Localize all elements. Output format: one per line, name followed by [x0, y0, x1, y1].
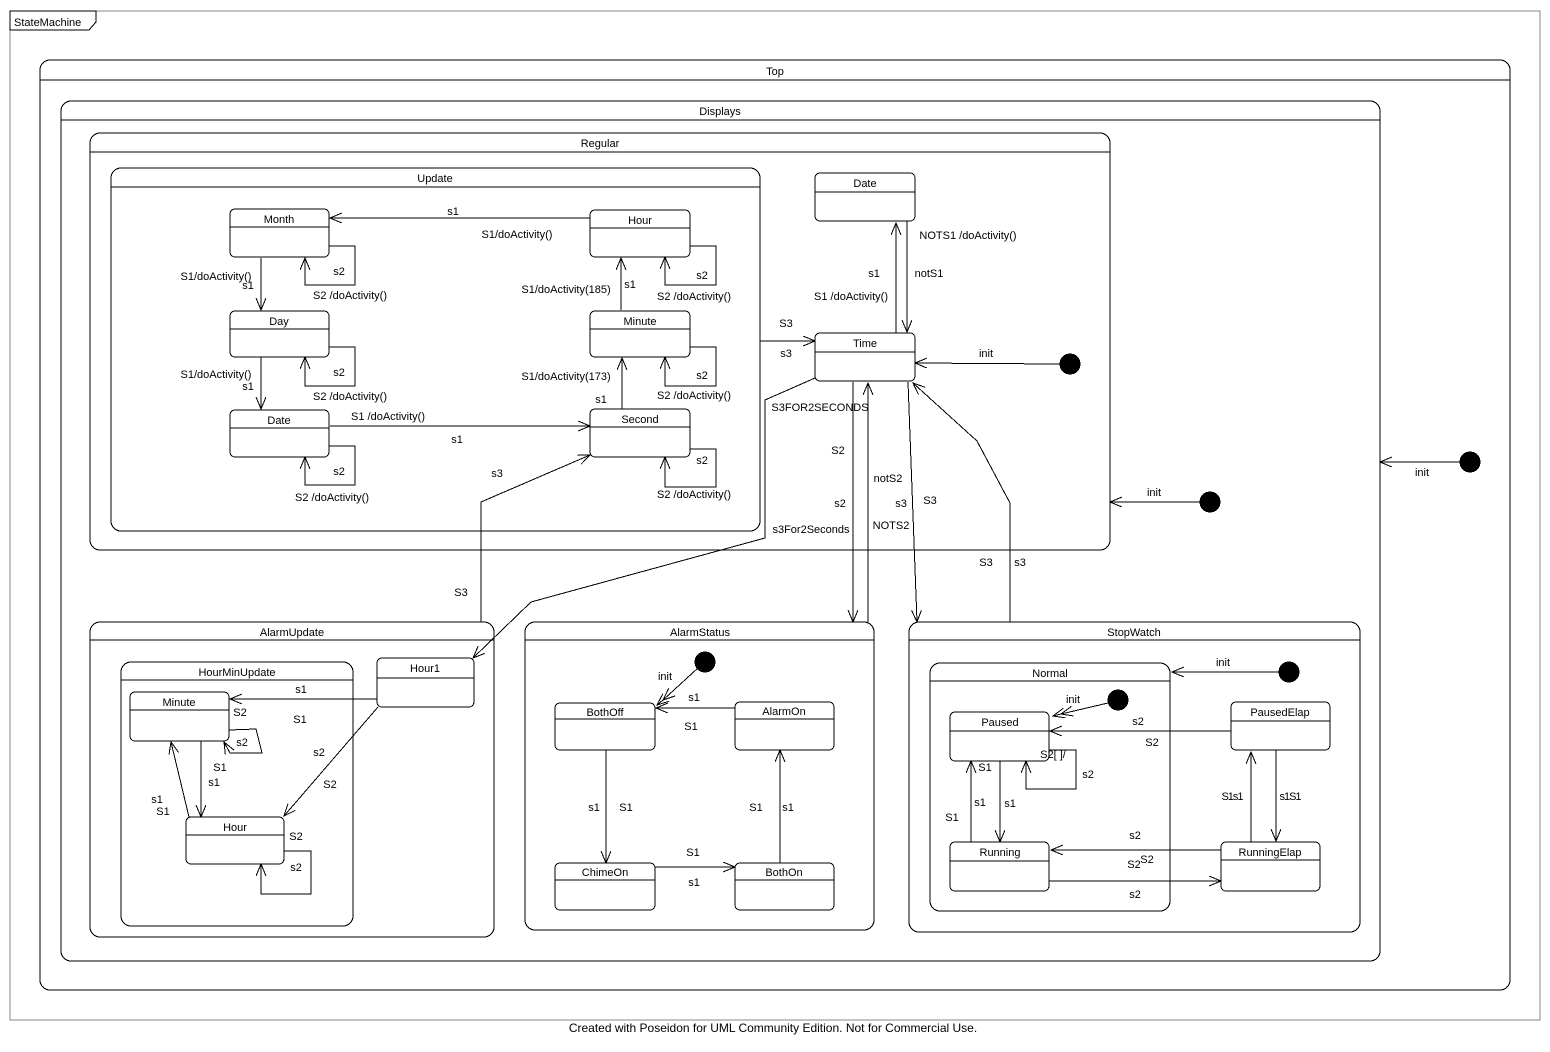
svg-text:S3FOR2SECONDS: S3FOR2SECONDS	[771, 402, 868, 414]
svg-text:s1: s1	[242, 381, 254, 393]
state BothOff	[555, 703, 655, 750]
svg-text:Time: Time	[853, 338, 877, 350]
self loop s2 Date	[295, 446, 369, 504]
transition Hour to Minute (AlarmUpdate)	[151, 742, 189, 818]
svg-text:s3: s3	[895, 498, 907, 510]
svg-text:Minute: Minute	[162, 697, 195, 709]
state Running	[950, 842, 1049, 891]
svg-text:S2 /doActivity(): S2 /doActivity()	[313, 290, 387, 302]
svg-text:s1S1: s1S1	[1279, 791, 1301, 803]
transition Paused to Running s1	[1000, 761, 1016, 842]
svg-text:s2: s2	[1132, 716, 1144, 728]
svg-text:s1: s1	[624, 279, 636, 291]
svg-text:StateMachine: StateMachine	[14, 17, 81, 29]
svg-text:Regular: Regular	[581, 138, 620, 150]
state Minute (AlarmUpdate)	[130, 692, 229, 741]
self loop s2 Second	[657, 449, 731, 501]
transition Running to Paused S1	[945, 761, 991, 842]
svg-text:Top: Top	[766, 66, 784, 78]
svg-text:S2 /doActivity(): S2 /doActivity()	[295, 492, 369, 504]
svg-text:S1 /doActivity(): S1 /doActivity()	[351, 411, 425, 423]
svg-text:Displays: Displays	[699, 106, 741, 118]
svg-text:s2: s2	[696, 270, 708, 282]
transition Hour1 to Minute	[230, 684, 377, 726]
svg-text:StopWatch: StopWatch	[1107, 627, 1160, 639]
svg-text:s1: s1	[688, 692, 700, 704]
svg-text:s1: s1	[688, 877, 700, 889]
svg-text:init: init	[1415, 467, 1429, 479]
svg-text:s2: s2	[333, 266, 345, 278]
svg-text:S1: S1	[749, 802, 762, 814]
transition Second to Minute	[521, 358, 622, 409]
svg-text:S2: S2	[831, 445, 844, 457]
svg-text:Hour: Hour	[628, 215, 652, 227]
svg-text:S2: S2	[323, 779, 336, 791]
init pseudostate to Displays	[1380, 452, 1481, 480]
state Normal	[930, 663, 1170, 911]
svg-text:Minute: Minute	[623, 316, 656, 328]
transition RunningElap to Running s2	[1051, 830, 1221, 871]
state AlarmStatus	[525, 622, 874, 930]
svg-text:s1: s1	[588, 802, 600, 814]
svg-text:S2 /doActivity(): S2 /doActivity()	[657, 489, 731, 501]
svg-text:s1: s1	[595, 394, 607, 406]
svg-text:Normal: Normal	[1032, 668, 1067, 680]
svg-text:S1: S1	[213, 762, 226, 774]
svg-text:Paused: Paused	[981, 717, 1018, 729]
state Paused	[950, 712, 1049, 761]
svg-text:S1/doActivity(): S1/doActivity()	[482, 229, 553, 241]
svg-text:Hour: Hour	[223, 822, 247, 834]
svg-text:Running: Running	[980, 847, 1021, 859]
svg-text:PausedElap: PausedElap	[1250, 707, 1309, 719]
svg-text:Day: Day	[269, 316, 289, 328]
svg-text:S1: S1	[686, 847, 699, 859]
transition Date to Time notS1	[907, 221, 1017, 332]
svg-text:S1: S1	[684, 721, 697, 733]
state Update	[111, 168, 760, 531]
self loop s2 Day	[305, 347, 387, 403]
svg-text:init: init	[1147, 487, 1161, 499]
svg-text:S2 /doActivity(): S2 /doActivity()	[657, 390, 731, 402]
transition RunningElap to PausedElap	[1221, 752, 1251, 842]
transition Time to Date s1	[814, 223, 896, 333]
state Date (top right)	[815, 173, 915, 221]
state BothOn	[735, 863, 834, 910]
state HourMinUpdate	[121, 662, 353, 926]
svg-text:Update: Update	[417, 173, 452, 185]
svg-text:S2 /doActivity(): S2 /doActivity()	[657, 291, 731, 303]
svg-text:s2: s2	[333, 466, 345, 478]
transition Date to Second	[330, 411, 590, 446]
svg-text:s3For2Seconds: s3For2Seconds	[772, 524, 850, 536]
svg-text:S3: S3	[779, 318, 792, 330]
svg-text:Created with Poseidon for UML: Created with Poseidon for UML Community …	[569, 1021, 977, 1035]
svg-text:S2: S2	[1145, 737, 1158, 749]
svg-text:notS1: notS1	[915, 268, 944, 280]
transition Month to Day	[181, 258, 261, 310]
state Day	[230, 311, 329, 357]
svg-text:S2: S2	[233, 707, 246, 719]
transition AlarmUpdate to Second S3	[454, 455, 590, 622]
state RunningElap	[1221, 842, 1320, 891]
svg-text:s1: s1	[868, 268, 880, 280]
svg-text:Second: Second	[621, 414, 658, 426]
svg-text:RunningElap: RunningElap	[1239, 847, 1302, 859]
svg-text:S3: S3	[923, 495, 936, 507]
svg-text:NOTS1 /doActivity(): NOTS1 /doActivity()	[919, 230, 1016, 242]
self loop S2 Paused	[1026, 749, 1094, 789]
svg-text:s2: s2	[290, 862, 302, 874]
svg-text:s2: s2	[236, 737, 248, 749]
state AlarmUpdate	[90, 622, 494, 937]
svg-text:s2: s2	[1129, 830, 1141, 842]
transition PausedElap to RunningElap	[1276, 750, 1301, 841]
init pseudostate in Normal	[1053, 690, 1129, 717]
self loop s2 Hour (AlarmUpdate)	[261, 831, 311, 894]
transition Hour1 to Hour s2	[284, 707, 378, 816]
svg-text:S2[ ]/: S2[ ]/	[1040, 749, 1067, 761]
state ChimeOn	[555, 863, 655, 910]
state Minute (in Update)	[590, 311, 690, 357]
state AlarmOn	[735, 702, 834, 750]
svg-text:S1: S1	[945, 812, 958, 824]
transition Minute to Hour	[521, 258, 635, 310]
state Second	[590, 409, 690, 457]
svg-text:S1: S1	[978, 762, 991, 774]
transition AlarmOn to BothOff s1	[656, 692, 735, 733]
svg-text:s1: s1	[451, 434, 463, 446]
transition Day to Date	[181, 357, 261, 409]
transition Update to Time S3	[760, 318, 815, 360]
svg-text:s2: s2	[834, 498, 846, 510]
svg-text:s1: s1	[1004, 798, 1016, 810]
svg-text:AlarmOn: AlarmOn	[762, 706, 805, 718]
svg-text:BothOn: BothOn	[765, 867, 802, 879]
svg-text:BothOff: BothOff	[586, 707, 624, 719]
state Hour (in Update)	[590, 210, 690, 257]
svg-text:init: init	[1216, 657, 1230, 669]
transition Hour to Month s1	[330, 206, 590, 241]
svg-text:Date: Date	[267, 415, 290, 427]
svg-text:s1: s1	[242, 280, 254, 292]
svg-text:S1/doActivity(185): S1/doActivity(185)	[521, 284, 610, 296]
svg-text:s1: s1	[295, 684, 307, 696]
transition BothOff to ChimeOn s1	[588, 750, 633, 863]
svg-text:s1: s1	[151, 794, 163, 806]
svg-text:HourMinUpdate: HourMinUpdate	[198, 667, 275, 679]
svg-text:s3: s3	[491, 468, 503, 480]
svg-text:S3: S3	[979, 557, 992, 569]
svg-text:s1: s1	[447, 206, 459, 218]
svg-text:S1 /doActivity(): S1 /doActivity()	[814, 291, 888, 303]
transition Running to RunningElap s2	[1049, 881, 1221, 901]
self loop s2 Minute (AlarmUpdate)	[224, 729, 262, 753]
svg-text:S1/doActivity(): S1/doActivity()	[181, 271, 252, 283]
transition ChimeOn to BothOn S1	[655, 847, 735, 889]
svg-text:S2: S2	[289, 831, 302, 843]
state Displays	[61, 101, 1380, 961]
transition AlarmStatus to Time notS2	[868, 383, 909, 622]
transition PausedElap to Paused s2	[1050, 716, 1231, 749]
self loop s2 Hour	[657, 246, 731, 303]
svg-text:notS2: notS2	[874, 473, 903, 485]
svg-text:S1s1: S1s1	[1221, 791, 1243, 803]
svg-text:s1: s1	[208, 777, 220, 789]
svg-text:S2: S2	[1140, 854, 1153, 866]
svg-text:AlarmStatus: AlarmStatus	[670, 627, 730, 639]
svg-text:S3: S3	[454, 587, 467, 599]
transition Time to StopWatch s3	[895, 382, 917, 622]
state Date (in Update)	[230, 410, 329, 457]
svg-text:ChimeOn: ChimeOn	[582, 867, 628, 879]
svg-text:init: init	[979, 348, 993, 360]
transition Minute to Hour (AlarmUpdate)	[201, 741, 227, 817]
svg-text:S1: S1	[619, 802, 632, 814]
transition Time to AlarmStatus S2	[831, 382, 853, 622]
svg-text:Month: Month	[264, 214, 295, 226]
svg-text:Date: Date	[853, 178, 876, 190]
svg-text:AlarmUpdate: AlarmUpdate	[260, 627, 324, 639]
transition BothOn to AlarmOn S1	[749, 750, 794, 863]
state Month	[230, 209, 329, 257]
svg-text:NOTS2: NOTS2	[873, 520, 910, 532]
svg-text:S1: S1	[156, 806, 169, 818]
init pseudostate to Normal	[1172, 657, 1300, 683]
StateMachine tab	[10, 11, 96, 30]
svg-text:Hour1: Hour1	[410, 663, 440, 675]
svg-text:init: init	[1066, 694, 1080, 706]
svg-text:init: init	[658, 671, 672, 683]
self loop s2 Minute	[657, 347, 731, 402]
state Regular	[90, 133, 1110, 550]
svg-text:S1/doActivity(173): S1/doActivity(173)	[521, 371, 610, 383]
svg-text:S2 /doActivity(): S2 /doActivity()	[313, 391, 387, 403]
svg-text:s3: s3	[780, 348, 792, 360]
init pseudostate to Time	[915, 348, 1081, 375]
state PausedElap	[1231, 702, 1330, 750]
transition StopWatch to Time S3	[913, 383, 1026, 622]
self loop s2 Month	[305, 246, 387, 302]
svg-text:S1/doActivity(): S1/doActivity()	[181, 369, 252, 381]
state Hour1	[377, 658, 474, 707]
state Hour (AlarmUpdate)	[186, 817, 284, 864]
svg-text:s3: s3	[1014, 557, 1026, 569]
svg-text:S2: S2	[1127, 859, 1140, 871]
init pseudostate AlarmStatus	[657, 652, 716, 706]
svg-text:s1: s1	[974, 797, 986, 809]
svg-text:s2: s2	[696, 370, 708, 382]
svg-text:S1: S1	[293, 714, 306, 726]
svg-text:s2: s2	[313, 747, 325, 759]
init pseudostate to Regular	[1110, 487, 1221, 513]
svg-text:s1: s1	[782, 802, 794, 814]
svg-text:s2: s2	[1129, 889, 1141, 901]
transition Time to Hour1 S3FOR2SECONDS	[473, 378, 869, 658]
svg-text:s2: s2	[333, 367, 345, 379]
state StopWatch	[909, 622, 1360, 932]
svg-text:s2: s2	[696, 455, 708, 467]
state Time	[815, 333, 915, 381]
svg-text:s2: s2	[1082, 769, 1094, 781]
